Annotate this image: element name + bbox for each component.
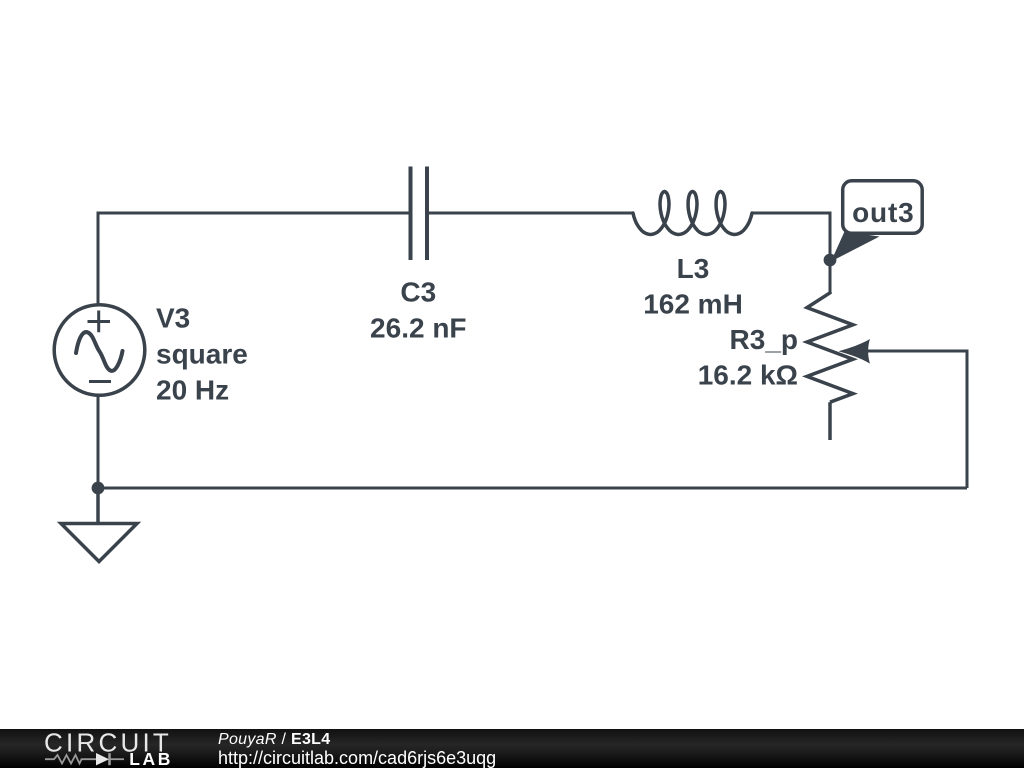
label C3 "C3 26.2 nF" xyxy=(370,276,466,343)
svg-text:V3: V3 xyxy=(156,303,190,334)
svg-text:square: square xyxy=(156,339,248,370)
svg-text:26.2 nF: 26.2 nF xyxy=(370,312,466,343)
label V3 "V3 square 20 Hz" xyxy=(156,303,248,406)
svg-text:R3_p: R3_p xyxy=(730,324,798,355)
footer text PouyaR / E3L4 xyxy=(218,732,330,747)
svg-text:C3: C3 xyxy=(400,276,436,307)
logo schematic glyph: wire-resistor-diode xyxy=(45,753,124,765)
svg-text:20 Hz: 20 Hz xyxy=(156,374,229,405)
wire V3 bottom to ground node xyxy=(97,396,100,488)
label R3_p "R3_p 16.2 kΩ" xyxy=(698,324,798,391)
label L3 "L3 162 mH" xyxy=(643,253,743,320)
svg-text:L3: L3 xyxy=(677,253,710,284)
logo CIRCUIT LAB xyxy=(0,729,200,768)
potentiometer R3_p xyxy=(807,292,870,440)
footer url xyxy=(218,749,496,767)
svg-text:16.2 kΩ: 16.2 kΩ xyxy=(698,360,798,391)
ground node junction dot xyxy=(92,482,105,495)
wire L3 to out3 node riser xyxy=(752,213,830,292)
node out3 junction dot xyxy=(824,254,837,267)
ground xyxy=(61,488,137,562)
capacitor C3 xyxy=(411,167,428,261)
voltage source V3 xyxy=(54,305,145,396)
net flag out3 xyxy=(831,181,922,262)
svg-text:LAB: LAB xyxy=(129,749,173,768)
wire C3 right plate to L3 xyxy=(427,212,633,215)
wire bottom rail (ground node to right riser) xyxy=(98,487,967,490)
wire top rail (V3 top corner to C3 left plate) xyxy=(98,213,410,304)
inductor L3 xyxy=(633,192,752,235)
footer bar xyxy=(0,729,1024,768)
svg-text:162 mH: 162 mH xyxy=(643,289,743,320)
svg-text:out3: out3 xyxy=(852,197,914,228)
wire wiper to right riser xyxy=(862,351,967,488)
